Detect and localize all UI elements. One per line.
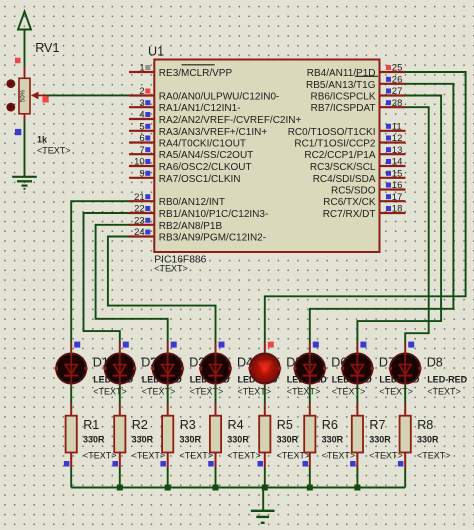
label &lt;TEXT&gt; of R5 — [277, 451, 311, 461]
pin 1 (RE3/MCLR/VPP) left side — [129, 63, 232, 79]
svg-text:<TEXT>: <TEXT> — [132, 451, 166, 461]
pin 14 (RC3/SCK/SCL) right side — [310, 157, 406, 173]
pin 21 (RB0/AN12/INT) left side — [129, 192, 225, 208]
ground symbol (rail) — [251, 511, 275, 523]
label &lt;TEXT&gt; of RV1 — [37, 146, 71, 156]
value label 1k — [37, 135, 48, 145]
svg-text:RB2/AN8/P1B: RB2/AN8/P1B — [159, 221, 223, 232]
svg-text:27: 27 — [392, 86, 403, 97]
svg-text:RC5/SDO: RC5/SDO — [331, 186, 376, 197]
pin 27 (RB6/ICSPCLK) right side — [310, 86, 405, 102]
label R5 — [277, 418, 293, 432]
pin 18 (RC7/RX/DT) right side — [323, 204, 406, 220]
pin 13 (RC2/CCP1/P1A) right side — [304, 145, 405, 161]
svg-text:28: 28 — [392, 98, 403, 109]
label R1 — [83, 418, 99, 432]
overline T1G (pin 26) — [355, 75, 378, 77]
pin 11 (RC0/T1OSO/T1CKI) right side — [288, 121, 406, 137]
state square above LED D5 (red) — [268, 342, 274, 348]
state square above LED D6 (blue) — [313, 342, 319, 348]
svg-text:330R: 330R — [180, 435, 202, 445]
label &lt;TEXT&gt; of D7 — [379, 387, 413, 397]
value label 330R of R5 — [277, 435, 299, 445]
state square above LED D1 (blue) — [74, 342, 80, 348]
svg-text:<TEXT>: <TEXT> — [369, 451, 403, 461]
wire RB2 (pin23) to D3 — [96, 225, 168, 343]
value label LED-RED of D3 — [190, 374, 230, 384]
wire R8 to ground rail — [404, 468, 406, 488]
svg-text:6: 6 — [139, 133, 144, 144]
wire D6 to R6 — [309, 386, 311, 404]
pin 9 (RA7/OSC1/CLKIN) left side — [129, 168, 241, 184]
wire D5 to R5 — [264, 386, 266, 404]
svg-text:330R: 330R — [417, 435, 439, 445]
wire RV1 to ground — [24, 122, 26, 177]
LED D8 — [389, 343, 422, 386]
svg-text:<TEXT>: <TEXT> — [190, 387, 224, 397]
label &lt;TEXT&gt; of R4 — [227, 451, 261, 461]
svg-text:1: 1 — [139, 63, 144, 74]
wire RB3 (pin24) to D4 — [108, 237, 216, 343]
svg-text:330R: 330R — [369, 435, 391, 445]
label R7 — [369, 418, 385, 432]
potentiometer RV1 — [6, 66, 46, 122]
label D6 — [331, 356, 347, 370]
svg-text:RA2/AN2/VREF-/CVREF/C2IN+: RA2/AN2/VREF-/CVREF/C2IN+ — [159, 115, 302, 126]
value label 330R of R1 — [83, 435, 105, 445]
state square below R2 (blue) — [113, 461, 119, 467]
wire D4 to R4 — [215, 386, 217, 404]
junction rail-R3 — [165, 485, 171, 491]
junction rail-R4 — [213, 485, 219, 491]
pin 12 (RC1/T1OSI/CCP2) right side — [294, 133, 405, 149]
wire RB7 (pin28) to D8 — [405, 107, 429, 342]
label &lt;TEXT&gt; of D3 — [190, 387, 224, 397]
value label 330R of R3 — [180, 435, 202, 445]
svg-text:RA0/AN0/ULPWU/C12IN0-: RA0/AN0/ULPWU/C12IN0- — [159, 92, 280, 103]
pin 2 (RA0/AN0/ULPWU/C12IN0-) left side — [129, 86, 279, 102]
value label 330R of R4 — [227, 435, 249, 445]
wire power to RV1 — [24, 30, 26, 67]
svg-text:1k: 1k — [37, 135, 48, 145]
wire RB5 (pin26) to D6 — [310, 84, 454, 343]
state square above LED D8 (blue) — [408, 342, 414, 348]
state square RV1 bottom pin (blue) — [15, 129, 21, 135]
svg-text:22: 22 — [134, 204, 145, 215]
pin 6 (RA4/T0CKI/C1OUT) left side — [129, 133, 246, 149]
label R4 — [228, 418, 244, 432]
svg-text:RB0/AN12/INT: RB0/AN12/INT — [159, 197, 225, 208]
svg-text:330R: 330R — [277, 435, 299, 445]
label &lt;TEXT&gt; of R3 — [180, 451, 214, 461]
resistor R7 — [352, 404, 363, 468]
svg-text:330R: 330R — [227, 435, 249, 445]
resistor R5 — [259, 404, 270, 468]
value label 330R of R2 — [132, 435, 154, 445]
svg-text:R3: R3 — [180, 418, 196, 432]
LED D2 — [103, 343, 136, 386]
svg-text:5: 5 — [139, 121, 144, 132]
ground symbol (RV1) — [12, 177, 37, 189]
pin 23 (RB2/AN8/P1B) left side — [129, 215, 222, 231]
svg-text:21: 21 — [134, 192, 145, 203]
label R6 — [322, 418, 338, 432]
svg-text:330R: 330R — [322, 435, 344, 445]
pin 16 (RC5/SDO) right side — [331, 180, 405, 196]
svg-text:RB5/AN13/T1G: RB5/AN13/T1G — [306, 80, 376, 91]
svg-text:25: 25 — [392, 63, 403, 74]
svg-text:<TEXT>: <TEXT> — [142, 387, 176, 397]
svg-text:RE3/MCLR/VPP: RE3/MCLR/VPP — [159, 68, 233, 79]
label RV1 — [35, 41, 59, 55]
label &lt;TEXT&gt; of R6 — [322, 451, 356, 461]
svg-text:RA5/AN4/SS/C2OUT: RA5/AN4/SS/C2OUT — [159, 150, 253, 161]
svg-text:<TEXT>: <TEXT> — [417, 451, 451, 461]
pin 10 (RA6/OSC2/CLKOUT) left side — [129, 157, 252, 173]
state square RV1 top pin (red) — [15, 58, 21, 64]
pin 15 (RC4/SDI/SDA) right side — [313, 168, 406, 184]
wire R2 to ground rail — [119, 468, 121, 488]
label &lt;TEXT&gt; of D5 — [287, 387, 321, 397]
wire R7 to ground rail — [356, 468, 358, 488]
svg-text:13: 13 — [392, 145, 403, 156]
svg-text:11: 11 — [392, 121, 402, 132]
wire D2 to R2 — [119, 386, 121, 404]
value label 330R of R7 — [369, 435, 391, 445]
pin 17 (RC6/TX/CK) right side — [323, 192, 405, 208]
label &lt;TEXT&gt; of R7 — [369, 451, 403, 461]
state square above LED D2 (blue) — [123, 342, 129, 348]
svg-text:RA7/OSC1/CLKIN: RA7/OSC1/CLKIN — [159, 174, 241, 185]
label D7 — [379, 356, 395, 370]
resistor R4 — [210, 404, 221, 468]
svg-text:RC4/SDI/SDA: RC4/SDI/SDA — [313, 174, 376, 185]
state square above LED D4 (blue) — [219, 342, 225, 348]
pin 22 (RB1/AN10/P1C/C12IN3-) left side — [129, 204, 268, 220]
svg-text:7: 7 — [139, 145, 144, 156]
label D1 — [93, 356, 109, 370]
svg-text:<TEXT>: <TEXT> — [37, 146, 71, 156]
svg-text:R1: R1 — [83, 418, 99, 432]
state square below R3 (blue) — [160, 461, 166, 467]
svg-text:50%: 50% — [20, 89, 27, 102]
wire RB6 (pin27) to D7 — [357, 96, 441, 343]
resistor R2 — [114, 404, 125, 468]
wire D3 to R3 — [167, 386, 169, 404]
label D4 — [237, 356, 253, 370]
label &lt;TEXT&gt; of D8 — [427, 387, 461, 397]
svg-text:RC2/CCP1/P1A: RC2/CCP1/P1A — [304, 150, 375, 161]
svg-text:<TEXT>: <TEXT> — [332, 387, 366, 397]
svg-text:15: 15 — [392, 168, 403, 179]
state square below R1 (blue) — [64, 461, 70, 467]
svg-text:RC6/TX/CK: RC6/TX/CK — [323, 197, 376, 208]
svg-text:RC7/RX/DT: RC7/RX/DT — [323, 209, 376, 220]
value label LED-RED of D1 — [93, 374, 133, 384]
svg-text:14: 14 — [392, 157, 403, 168]
label PIC16F886 — [154, 254, 206, 265]
wire RV1 wiper to U1 pin 2 (RA0) — [47, 94, 130, 96]
value label LED-RED of D8 — [427, 374, 467, 384]
state square RV1 wiper (red) — [42, 96, 48, 102]
resistor R1 — [66, 404, 77, 468]
svg-text:RB3/AN9/PGM/C12IN2-: RB3/AN9/PGM/C12IN2- — [159, 233, 266, 244]
label R3 — [180, 418, 196, 432]
label D2 — [141, 356, 157, 370]
wire R1 to ground rail — [70, 468, 72, 488]
svg-text:RB7/ICSPDAT: RB7/ICSPDAT — [311, 103, 376, 114]
svg-text:<TEXT>: <TEXT> — [238, 387, 272, 397]
wire R4 to ground rail — [215, 468, 217, 488]
svg-text:D8: D8 — [427, 356, 443, 370]
state square below R5 (blue) — [258, 461, 264, 467]
svg-text:R5: R5 — [277, 418, 293, 432]
value label LED-RED of D4 — [238, 374, 278, 384]
pin 4 (RA2/AN2/VREF-/CVREF/C2IN+) left side — [129, 110, 301, 126]
LED D4 — [199, 343, 232, 386]
svg-text:R2: R2 — [132, 418, 148, 432]
label D5 — [286, 356, 302, 370]
label &lt;TEXT&gt; of R1 — [83, 451, 117, 461]
pin 5 (RA3/AN3/VREF+/C1IN+) left side — [129, 121, 267, 137]
svg-text:RA3/AN3/VREF+/C1IN+: RA3/AN3/VREF+/C1IN+ — [159, 127, 268, 138]
resistor R8 — [400, 404, 411, 468]
svg-text:12: 12 — [392, 133, 403, 144]
svg-text:RB1/AN10/P1C/C12IN3-: RB1/AN10/P1C/C12IN3- — [159, 209, 268, 220]
svg-text:RB4/AN11/P1D: RB4/AN11/P1D — [307, 68, 376, 79]
pin 28 (RB7/ICSPDAT) right side — [311, 98, 406, 114]
junction rail-R6 — [307, 485, 313, 491]
resistor R3 — [162, 404, 173, 468]
microcontroller U1 PIC16F886 body — [154, 60, 379, 253]
label &lt;TEXT&gt; of R2 — [132, 451, 166, 461]
svg-text:RB6/ICSPCLK: RB6/ICSPCLK — [310, 92, 375, 103]
label &lt;TEXT&gt; of D4 — [238, 387, 272, 397]
LED D1 — [55, 343, 88, 386]
junction rail-R5 — [262, 485, 268, 491]
wire RB1 (pin22) to D2 — [84, 213, 130, 343]
label &lt;TEXT&gt; of U1 — [154, 264, 188, 274]
wire RB4 (pin25) to D5 — [265, 72, 466, 343]
svg-text:4: 4 — [139, 110, 144, 121]
value label LED-RED of D5 — [287, 374, 327, 384]
state square below R6 (blue) — [303, 461, 309, 467]
svg-text:<TEXT>: <TEXT> — [427, 387, 461, 397]
junction rail-R7 — [354, 485, 360, 491]
state square above LED D3 (blue) — [171, 342, 177, 348]
pin 3 (RA1/AN1/C12IN1-) left side — [129, 98, 241, 114]
value label 330R of R8 — [417, 435, 439, 445]
svg-text:24: 24 — [134, 227, 145, 238]
label U1 — [148, 44, 164, 58]
svg-text:330R: 330R — [83, 435, 105, 445]
LED D7 — [341, 343, 374, 386]
svg-text:3: 3 — [139, 98, 144, 109]
pin 25 (RB4/AN11/P1D) right side — [307, 63, 406, 79]
wire D8 to R8 — [404, 386, 406, 404]
LED D6 — [293, 343, 326, 386]
junction rail-R2 — [117, 485, 123, 491]
svg-text:RA1/AN1/C12IN1-: RA1/AN1/C12IN1- — [159, 103, 241, 114]
wire R3 to ground rail — [167, 468, 169, 488]
svg-text:10: 10 — [134, 157, 145, 168]
svg-text:RC3/SCK/SCL: RC3/SCK/SCL — [310, 162, 376, 173]
LED D5 (lit) — [248, 343, 281, 386]
value label LED-RED of D7 — [379, 374, 419, 384]
svg-text:23: 23 — [134, 215, 145, 226]
label &lt;TEXT&gt; of R8 — [417, 451, 451, 461]
label &lt;TEXT&gt; of D2 — [142, 387, 176, 397]
label D3 — [189, 356, 205, 370]
svg-text:<TEXT>: <TEXT> — [379, 387, 413, 397]
svg-text:R8: R8 — [417, 418, 433, 432]
svg-text:<TEXT>: <TEXT> — [322, 451, 356, 461]
svg-text:RC0/T1OSO/T1CKI: RC0/T1OSO/T1CKI — [288, 127, 376, 138]
LED D3 — [151, 343, 184, 386]
svg-text:<TEXT>: <TEXT> — [180, 451, 214, 461]
state square below R4 (blue) — [208, 461, 214, 467]
overline MCLR (pin 1) — [182, 64, 215, 66]
pin 7 (RA5/AN4/SS/C2OUT) left side — [129, 145, 253, 161]
svg-text:18: 18 — [392, 204, 403, 215]
svg-text:RC1/T1OSI/CCP2: RC1/T1OSI/CCP2 — [294, 139, 376, 150]
svg-text:RA4/T0CKI/C1OUT: RA4/T0CKI/C1OUT — [159, 139, 246, 150]
svg-text:<TEXT>: <TEXT> — [93, 387, 127, 397]
label &lt;TEXT&gt; of D6 — [332, 387, 366, 397]
wire D7 to R7 — [356, 386, 358, 404]
svg-text:LED-RED: LED-RED — [427, 374, 467, 384]
svg-text:RA6/OSC2/CLKOUT: RA6/OSC2/CLKOUT — [159, 162, 252, 173]
wire rail to ground symbol — [262, 488, 264, 511]
svg-text:R4: R4 — [228, 418, 244, 432]
label &lt;TEXT&gt; of D1 — [93, 387, 127, 397]
svg-text:17: 17 — [392, 192, 403, 203]
svg-text:<TEXT>: <TEXT> — [83, 451, 117, 461]
state square below R7 (blue) — [350, 461, 356, 467]
svg-text:330R: 330R — [132, 435, 154, 445]
svg-text:R6: R6 — [322, 418, 338, 432]
value label 330R of R6 — [322, 435, 344, 445]
svg-text:RV1: RV1 — [35, 41, 59, 55]
state square above LED D7 (blue) — [360, 342, 366, 348]
wire R5 to ground rail — [264, 468, 266, 488]
svg-text:26: 26 — [392, 75, 403, 86]
svg-text:R7: R7 — [369, 418, 385, 432]
pin 26 (RB5/AN13/T1G) right side — [306, 75, 405, 91]
wire D1 to R1 — [70, 386, 72, 404]
svg-text:16: 16 — [392, 180, 403, 191]
svg-text:<TEXT>: <TEXT> — [227, 451, 261, 461]
svg-text:9: 9 — [139, 168, 144, 179]
value label LED-RED of D2 — [142, 374, 182, 384]
label R2 — [132, 418, 148, 432]
ground rail wire — [71, 486, 405, 488]
svg-text:U1: U1 — [148, 44, 164, 58]
label R8 — [417, 418, 433, 432]
svg-text:<TEXT>: <TEXT> — [154, 264, 188, 274]
state square below R8 (blue) — [398, 461, 404, 467]
svg-text:<TEXT>: <TEXT> — [287, 387, 321, 397]
value label LED-RED of D6 — [332, 374, 372, 384]
resistor R6 — [304, 404, 315, 468]
wire R6 to ground rail — [309, 468, 311, 488]
wire RB0 (pin21) to D1 — [71, 201, 129, 342]
pin 24 (RB3/AN9/PGM/C12IN2-) left side — [129, 227, 266, 243]
label D8 — [427, 356, 443, 370]
power terminal (arrow) — [18, 12, 31, 30]
svg-text:2: 2 — [139, 86, 144, 97]
